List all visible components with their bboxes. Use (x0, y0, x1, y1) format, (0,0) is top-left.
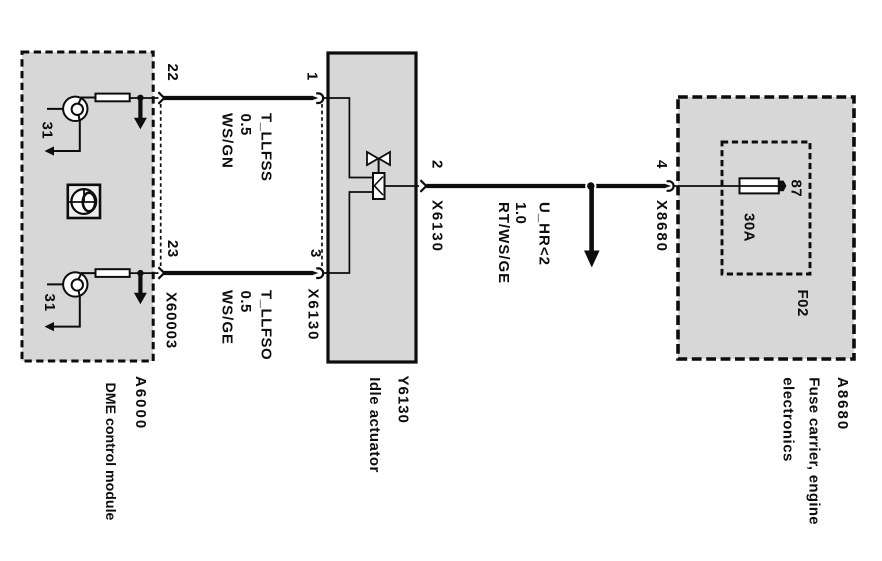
pin 2 connector chevron (420, 180, 426, 192)
fuse tip (779, 181, 787, 192)
svg-text:RT/WS/GE: RT/WS/GE (495, 202, 512, 284)
wire pin4 to fuse (673, 185, 740, 187)
resistor R2 (bottom) (96, 269, 130, 277)
svg-text:Idle actuator: Idle actuator (366, 377, 383, 473)
svg-text:2: 2 (429, 160, 446, 169)
valve symbol (bowtie) (367, 152, 390, 165)
transistor Q1 (output stage, pin 22) (47, 97, 96, 151)
wire resistor R1 to pin 22 (130, 97, 159, 99)
fuse F02 body (740, 178, 779, 193)
connector housing X60003 dashed link (160, 104, 162, 266)
svg-text:Fuse carrier, engine: Fuse carrier, engine (806, 377, 823, 525)
actuator internal wire to pin 2 (385, 185, 420, 187)
svg-text:23: 23 (164, 240, 181, 258)
transistor Q2 (output stage, pin 23) (47, 272, 96, 326)
wire U_HR (pin2 to pin4) (426, 184, 665, 188)
actuator internal wire from pin 1 (323, 98, 373, 178)
pin 22 connector chevron (158, 92, 164, 104)
svg-text:0.5: 0.5 (237, 114, 254, 136)
svg-text:T_LLFSS: T_LLFSS (258, 113, 275, 182)
arrow down at pin 23 (inside DME) (138, 273, 142, 293)
svg-text:30A: 30A (741, 213, 758, 242)
socket pin 3 bracket (316, 268, 323, 278)
svg-text:1: 1 (304, 72, 321, 81)
svg-text:X6130: X6130 (429, 200, 446, 253)
svg-text:A6000: A6000 (132, 376, 149, 430)
idle actuator box Y6130 (328, 53, 416, 362)
arrow down at pin 22 (inside DME) (138, 98, 142, 118)
svg-text:87: 87 (788, 180, 805, 198)
junction node on wire (585, 180, 596, 191)
svg-text:31: 31 (41, 294, 58, 313)
DME electronic-control-unit symbol (68, 185, 100, 218)
svg-text:0.5: 0.5 (237, 291, 254, 313)
ground arrow terminal 31 (bottom) (45, 322, 55, 331)
fuse carrier box A8680 (678, 97, 854, 359)
fuse box F02 (inner dashed) (722, 142, 810, 274)
socket pin 4 bracket (667, 181, 674, 191)
svg-text:4: 4 (653, 160, 670, 169)
solenoid rect with chevron (373, 173, 385, 199)
svg-text:22: 22 (164, 64, 181, 82)
svg-text:electronics: electronics (780, 377, 797, 462)
svg-text:X8680: X8680 (653, 200, 670, 253)
resistor R1 (top) (96, 94, 130, 102)
actuator internal wire from pin 3 (323, 192, 373, 273)
svg-text:WS/GN: WS/GN (219, 113, 236, 169)
wire T_LLFSS (pin22 to pin1) (163, 96, 313, 100)
valve stem (378, 159, 380, 174)
svg-text:DME control module: DME control module (102, 383, 118, 521)
svg-text:T_LLFSO: T_LLFSO (258, 290, 275, 360)
connector housing X6130 dashed link (321, 104, 323, 266)
wire resistor R2 to pin 23 (130, 272, 159, 274)
DME control module box A6000 (22, 52, 153, 361)
svg-text:X6130: X6130 (305, 289, 322, 342)
svg-text:F02: F02 (794, 290, 811, 317)
junction node (bottom) (137, 270, 143, 276)
arrow down from junction (589, 188, 594, 251)
ground arrow terminal 31 (top) (45, 146, 55, 155)
svg-text:WS/GE: WS/GE (219, 290, 236, 345)
wire T_LLFSO (pin23 to pin3) (163, 271, 313, 275)
svg-text:1.0: 1.0 (512, 202, 529, 224)
svg-text:31: 31 (39, 122, 56, 140)
svg-text:A8680: A8680 (834, 377, 851, 431)
socket pin 1 bracket (316, 93, 323, 103)
svg-text:Y6130: Y6130 (395, 376, 412, 424)
svg-text:X60003: X60003 (163, 292, 180, 349)
pin 23 connector chevron (158, 267, 164, 279)
svg-text:U_HR<2: U_HR<2 (536, 202, 553, 266)
junction node (top) (137, 95, 143, 101)
